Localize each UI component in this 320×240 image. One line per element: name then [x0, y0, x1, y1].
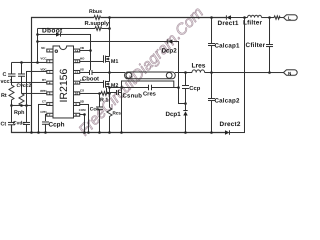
wire Dcp2 rail: [38, 40, 168, 42]
node Rcs/bottom bus: [108, 131, 111, 134]
capacitor Cfilter: [269, 18, 271, 45]
pin 9: [73, 103, 79, 106]
node mid-left/Cvdc column: [25, 104, 28, 107]
wire supply column vertical: [37, 28, 39, 62]
wire snubber vertical to bus: [120, 87, 122, 132]
svg-text:COM: COM: [79, 108, 86, 112]
svg-text:CT: CT: [42, 99, 46, 103]
wire lamp left entry: [109, 71, 125, 73]
node supply/Dcp2 wire: [36, 40, 39, 43]
capacitor Cvcc2 with leads: [20, 62, 22, 74]
resistor Rph: [19, 93, 24, 105]
node R.supply/M1 drain column: [108, 27, 111, 30]
wire bottom bus right end: [229, 18, 244, 133]
node Calcap/bottom bus: [210, 131, 213, 134]
wire pin11 LO to M2 gate: [80, 81, 104, 83]
wire pin12 VS to mid node: [80, 71, 90, 73]
wire Dcp2 to charge pump column: [172, 42, 186, 104]
svg-text:HO: HO: [80, 57, 85, 61]
node lamp wire/Ccp column: [184, 71, 187, 74]
node Ccs/bottom bus: [98, 131, 101, 134]
svg-text:Lres: Lres: [192, 62, 206, 69]
wire Cres to charge pump column: [151, 87, 178, 89]
pin 10: [73, 92, 79, 95]
node pin6 column/bottom bus: [37, 131, 40, 134]
svg-text:CS: CS: [80, 89, 84, 93]
inductor Lres: [192, 70, 205, 73]
svg-text:Rph: Rph: [14, 110, 24, 116]
svg-text:M1: M1: [111, 59, 119, 65]
capacitor Cboot: [88, 70, 90, 75]
node bottom bus/frame: [30, 131, 33, 134]
node VCC/supply column: [36, 61, 39, 64]
svg-text:R.supply: R.supply: [85, 20, 110, 27]
wire bus Drect1 to Lfilter: [231, 17, 248, 19]
svg-text:Dcp1: Dcp1: [165, 111, 181, 118]
wire pin4 RT to Rt column: [11, 81, 46, 83]
node pin9 column/bottom bus: [87, 131, 90, 134]
svg-text:14: 14: [75, 49, 79, 53]
pin 12: [73, 70, 79, 73]
node N line/Calcap column: [210, 71, 213, 74]
transistor M2: [102, 80, 104, 88]
svg-text:Cvdc: Cvdc: [13, 120, 25, 126]
terminal L: [284, 15, 298, 20]
svg-text:Lfilter: Lfilter: [243, 19, 262, 26]
wire pin8 COM to bus: [80, 114, 85, 132]
wire Cres horizontal: [121, 86, 147, 88]
svg-text:VB: VB: [80, 46, 84, 50]
node snubber junction: [120, 86, 123, 89]
diode Dboot: [56, 32, 61, 36]
node bus/M1 drain: [108, 16, 111, 19]
svg-text:RPH: RPH: [40, 89, 46, 93]
pin 7: [47, 113, 53, 116]
pin 14: [74, 49, 80, 52]
capacitor Cres: [147, 85, 149, 91]
diode Drect2: [225, 130, 230, 134]
wire pin13 HO to M1 gate: [80, 60, 104, 62]
pin 11: [73, 81, 79, 84]
svg-text:Cfilter: Cfilter: [246, 42, 266, 49]
node Ccph/bottom bus: [44, 131, 47, 134]
svg-text:11: 11: [75, 81, 79, 85]
node charge pump jog: [184, 102, 187, 105]
resistor R.supply: [95, 27, 102, 31]
wire N line: [205, 72, 284, 74]
svg-text:vcc1: vcc1: [0, 79, 12, 85]
pin 4: [47, 81, 53, 84]
pin 5: [47, 92, 53, 95]
svg-text:Ccph: Ccph: [48, 121, 64, 128]
wire pin6 CT to bus: [38, 104, 46, 132]
node Dcp1/bottom bus: [184, 131, 187, 134]
diode Drect1: [226, 15, 231, 19]
node snubber/bottom bus: [120, 131, 123, 134]
capacitor Ccph: [42, 121, 49, 123]
capacitor Calcap2: [208, 98, 215, 100]
wire bus Lfilter to fuse: [262, 17, 275, 19]
node Cres/column joint: [177, 86, 180, 89]
capacitor Ccs: [98, 93, 100, 107]
svg-text:Ct: Ct: [0, 121, 6, 127]
node Rt bottom: [10, 104, 13, 107]
svg-text:Calcap1: Calcap1: [215, 43, 240, 50]
node supply/Dboot: [36, 33, 39, 36]
wire pin14 VB: [80, 49, 91, 51]
wire R.supply: [38, 27, 96, 29]
resistor Rt: [9, 82, 14, 105]
watermark FreeCircuitDiagram.Com: [76, 4, 207, 139]
svg-text:10: 10: [75, 92, 79, 96]
wire lamp right exit: [175, 72, 192, 74]
node N line/Cfilter column: [268, 71, 271, 74]
node bus/Calcap column: [210, 16, 213, 19]
node VB column/pin14 wire: [89, 49, 92, 52]
node M2 source/R1: [108, 92, 111, 95]
resistor Rbus: [94, 16, 101, 20]
svg-text:13: 13: [75, 60, 79, 64]
inductor Lfilter: [248, 15, 262, 17]
svg-text:Calcap2: Calcap2: [214, 98, 239, 105]
svg-text:Rt: Rt: [1, 93, 7, 99]
wire top bus: [31, 17, 94, 132]
svg-text:IR2156: IR2156: [58, 68, 70, 102]
capacitor Calcap1: [211, 18, 213, 44]
node bus/rect column right: [243, 16, 246, 19]
svg-text:Rbus: Rbus: [89, 9, 102, 15]
transistor M1: [103, 55, 105, 63]
node VCC/Cvcc2: [20, 61, 23, 64]
svg-text:M2: M2: [111, 83, 119, 89]
terminal N: [283, 70, 297, 75]
pin 13: [74, 60, 80, 63]
wire pin3 VDC to Cvdc column: [26, 71, 46, 105]
svg-text:Ccp: Ccp: [189, 85, 200, 92]
capacitor Ct: [8, 121, 15, 123]
node CS wire/Ccs: [98, 92, 101, 95]
resistor Rcs: [107, 107, 112, 132]
capacitor Ccp: [184, 73, 186, 86]
svg-text:Cvcc2: Cvcc2: [16, 83, 31, 89]
pin 3: [47, 70, 53, 73]
svg-text:RT: RT: [42, 78, 46, 82]
capacitor Csnub: [105, 87, 107, 92]
node bus/Cfilter column: [268, 16, 271, 19]
pin 6: [47, 103, 53, 106]
wire mid-left horizontal: [11, 104, 31, 106]
resistor R1: [101, 92, 110, 96]
lamp tube: [125, 72, 176, 79]
node VS/mid node: [108, 71, 111, 74]
node Rph bottom: [20, 104, 23, 107]
wire VCC rail to pin2: [12, 61, 47, 63]
pin 8: [73, 113, 79, 116]
resistor fuse inline: [274, 16, 284, 19]
wire pin9 SD to bus: [80, 104, 89, 132]
svg-text:VDC: VDC: [40, 67, 47, 71]
wire bottom bus: [11, 125, 225, 133]
svg-text:Ccs: Ccs: [90, 106, 99, 112]
svg-text:VCC: VCC: [40, 57, 47, 61]
svg-text:Dcp2: Dcp2: [162, 48, 178, 55]
diode Dcp2: [168, 39, 173, 43]
wire Dboot to VB column: [61, 34, 91, 70]
svg-text:L: L: [288, 16, 291, 21]
svg-text:12: 12: [75, 70, 79, 74]
svg-text:Csnub: Csnub: [122, 92, 142, 99]
node pin8/COM corner: [83, 113, 86, 116]
svg-text:Cres: Cres: [143, 90, 156, 97]
diode Dcp1: [183, 111, 187, 115]
wire M1 source to mid: [108, 61, 110, 81]
node pin8 column/bottom bus: [83, 131, 86, 134]
node M2 source/snub wire: [108, 86, 111, 89]
svg-text:C: C: [2, 72, 6, 78]
pin 1: [47, 49, 53, 52]
svg-text:Dboot: Dboot: [42, 27, 63, 34]
capacitor Cvdc: [23, 121, 30, 123]
svg-text:Rcs: Rcs: [112, 110, 121, 115]
svg-text:R 1: R 1: [100, 97, 108, 103]
wire pin10 CS with R1: [80, 92, 101, 94]
wire Dboot horizontal: [38, 33, 57, 35]
wire M2 source down: [108, 86, 110, 107]
capacitor Cvcc1 with leads: [10, 62, 12, 73]
svg-text:SD: SD: [80, 99, 84, 103]
wire top bus right of Rbus: [101, 16, 226, 18]
wire M2 source to snub node: [109, 86, 121, 88]
svg-text:CPH: CPH: [40, 110, 46, 114]
svg-text:Drect2: Drect2: [219, 121, 240, 128]
svg-text:VS: VS: [80, 67, 84, 71]
lamp heater loop: [121, 81, 173, 88]
pin 2: [47, 60, 53, 63]
svg-text:Drect1: Drect1: [218, 20, 239, 27]
svg-text:Cboot: Cboot: [82, 75, 99, 82]
wire M1 drain to bus: [109, 17, 111, 56]
IC U1 IR2156 body: [53, 46, 74, 118]
wire pin5 RPH to Rph column: [21, 92, 46, 94]
wire pin7 CPH down: [45, 114, 46, 121]
